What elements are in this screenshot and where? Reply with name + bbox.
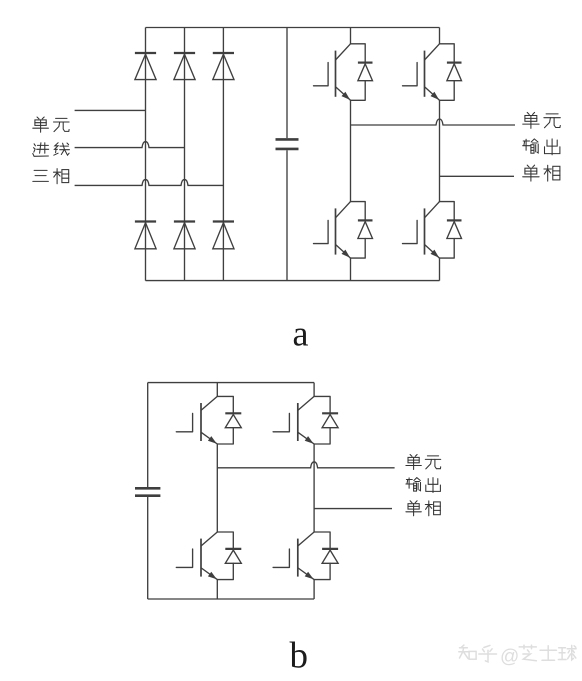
watermark: 知乎 @芝士球	[459, 645, 476, 659]
wire: phase input line 2 (hop over leg 1)	[75, 142, 185, 148]
diode D11 (antiparallel, Q5)	[217, 396, 241, 444]
transistor Q8 (IGBT lower-right, circuit b)	[273, 532, 314, 580]
wire: rectifier leg 1	[145, 28, 147, 281]
node label: 单相 (right a, line3)	[523, 165, 539, 181]
diode D1 (upper rectifier, leg 1)	[135, 52, 156, 54]
transistor Q3 (IGBT lower-left, circuit a)	[314, 202, 351, 259]
diode D7 (antiparallel, Q1)	[351, 44, 373, 101]
node label: 进线 (left, line2)	[33, 143, 49, 157]
wire: output line 2 (from right leg)	[440, 175, 515, 177]
wire: output line 1 (from left leg, hop over right leg)	[351, 119, 516, 125]
diode D13 (antiparallel, Q7)	[217, 532, 241, 580]
node label: 输出 (right a, line2)	[523, 139, 539, 153]
transistor Q6 (IGBT upper-right, circuit b)	[273, 396, 314, 444]
diode D6 (lower rectifier, leg 3)	[213, 220, 234, 222]
wire: left leg to bottom bus (circuit a)	[350, 258, 352, 281]
capacitor C2 (DC bus, circuit b)	[147, 383, 149, 487]
diode D3 (upper rectifier, leg 3)	[213, 52, 234, 54]
wire: left leg to bottom bus (circuit b)	[216, 580, 218, 599]
node label: 单元 (left, line1)	[33, 117, 49, 132]
diode D10 (antiparallel, Q4)	[440, 202, 462, 259]
diode D8 (antiparallel, Q2)	[440, 44, 462, 101]
wire: left inverter leg mid section (circuit b)	[216, 444, 218, 532]
node label: 输出 (right b, line2)	[406, 478, 421, 492]
svg-text:@: @	[500, 647, 519, 668]
node label: 单元 (right a, line1)	[523, 112, 539, 128]
transistor Q7 (IGBT lower-left, circuit b)	[176, 532, 217, 580]
node label: 单元 (right b, line1)	[406, 455, 421, 470]
wire: right inverter leg mid section (circuit a)	[439, 100, 441, 201]
diode D14 (antiparallel, Q8)	[314, 532, 338, 580]
wire: right leg top stub (circuit b)	[313, 383, 315, 397]
diode D4 (lower rectifier, leg 1)	[135, 220, 156, 222]
wire: rectifier leg 3	[222, 28, 224, 281]
diode D9 (antiparallel, Q3)	[351, 202, 373, 259]
wire: top DC bus (circuit b)	[148, 382, 314, 384]
node label: 三相 (left, line3)	[33, 170, 49, 181]
wire: top DC bus (circuit a)	[146, 27, 440, 29]
diode D12 (antiparallel, Q6)	[314, 396, 338, 444]
wire: right leg top stub (circuit a)	[439, 28, 441, 44]
wire: left inverter leg mid section (circuit a)	[350, 100, 352, 201]
diode D2 (upper rectifier, leg 2)	[174, 52, 195, 54]
wire: right inverter leg mid section (circuit b)	[313, 444, 315, 532]
wire: phase input line 3 (hops over legs 1,2)	[75, 179, 224, 185]
wire: output line 1 (circuit b, hop over right leg)	[217, 462, 394, 468]
wire: right leg to bottom bus (circuit b)	[313, 580, 315, 599]
wire: phase input line 1	[75, 109, 146, 111]
node label: 单相 (right b, line3)	[406, 501, 421, 516]
wire: bottom DC bus (circuit a)	[146, 280, 440, 282]
diode D5 (lower rectifier, leg 2)	[174, 220, 195, 222]
wire: bottom DC bus (circuit b)	[148, 598, 314, 600]
wire: left leg top stub (circuit a)	[350, 28, 352, 44]
svg-text:a: a	[293, 314, 309, 354]
transistor Q1 (IGBT upper-left, circuit a)	[314, 44, 351, 101]
transistor Q5 (IGBT upper-left, circuit b)	[176, 396, 217, 444]
wire: left leg top stub (circuit b)	[216, 383, 218, 397]
capacitor C1 (DC bus, circuit a)	[286, 28, 288, 139]
svg-text:b: b	[290, 635, 309, 676]
wire: right leg to bottom bus (circuit a)	[439, 258, 441, 281]
transistor Q2 (IGBT upper-right, circuit a)	[403, 44, 440, 101]
wire: output line 2 (circuit b)	[314, 508, 392, 510]
transistor Q4 (IGBT lower-right, circuit a)	[403, 202, 440, 259]
wire: rectifier leg 2	[184, 28, 186, 281]
